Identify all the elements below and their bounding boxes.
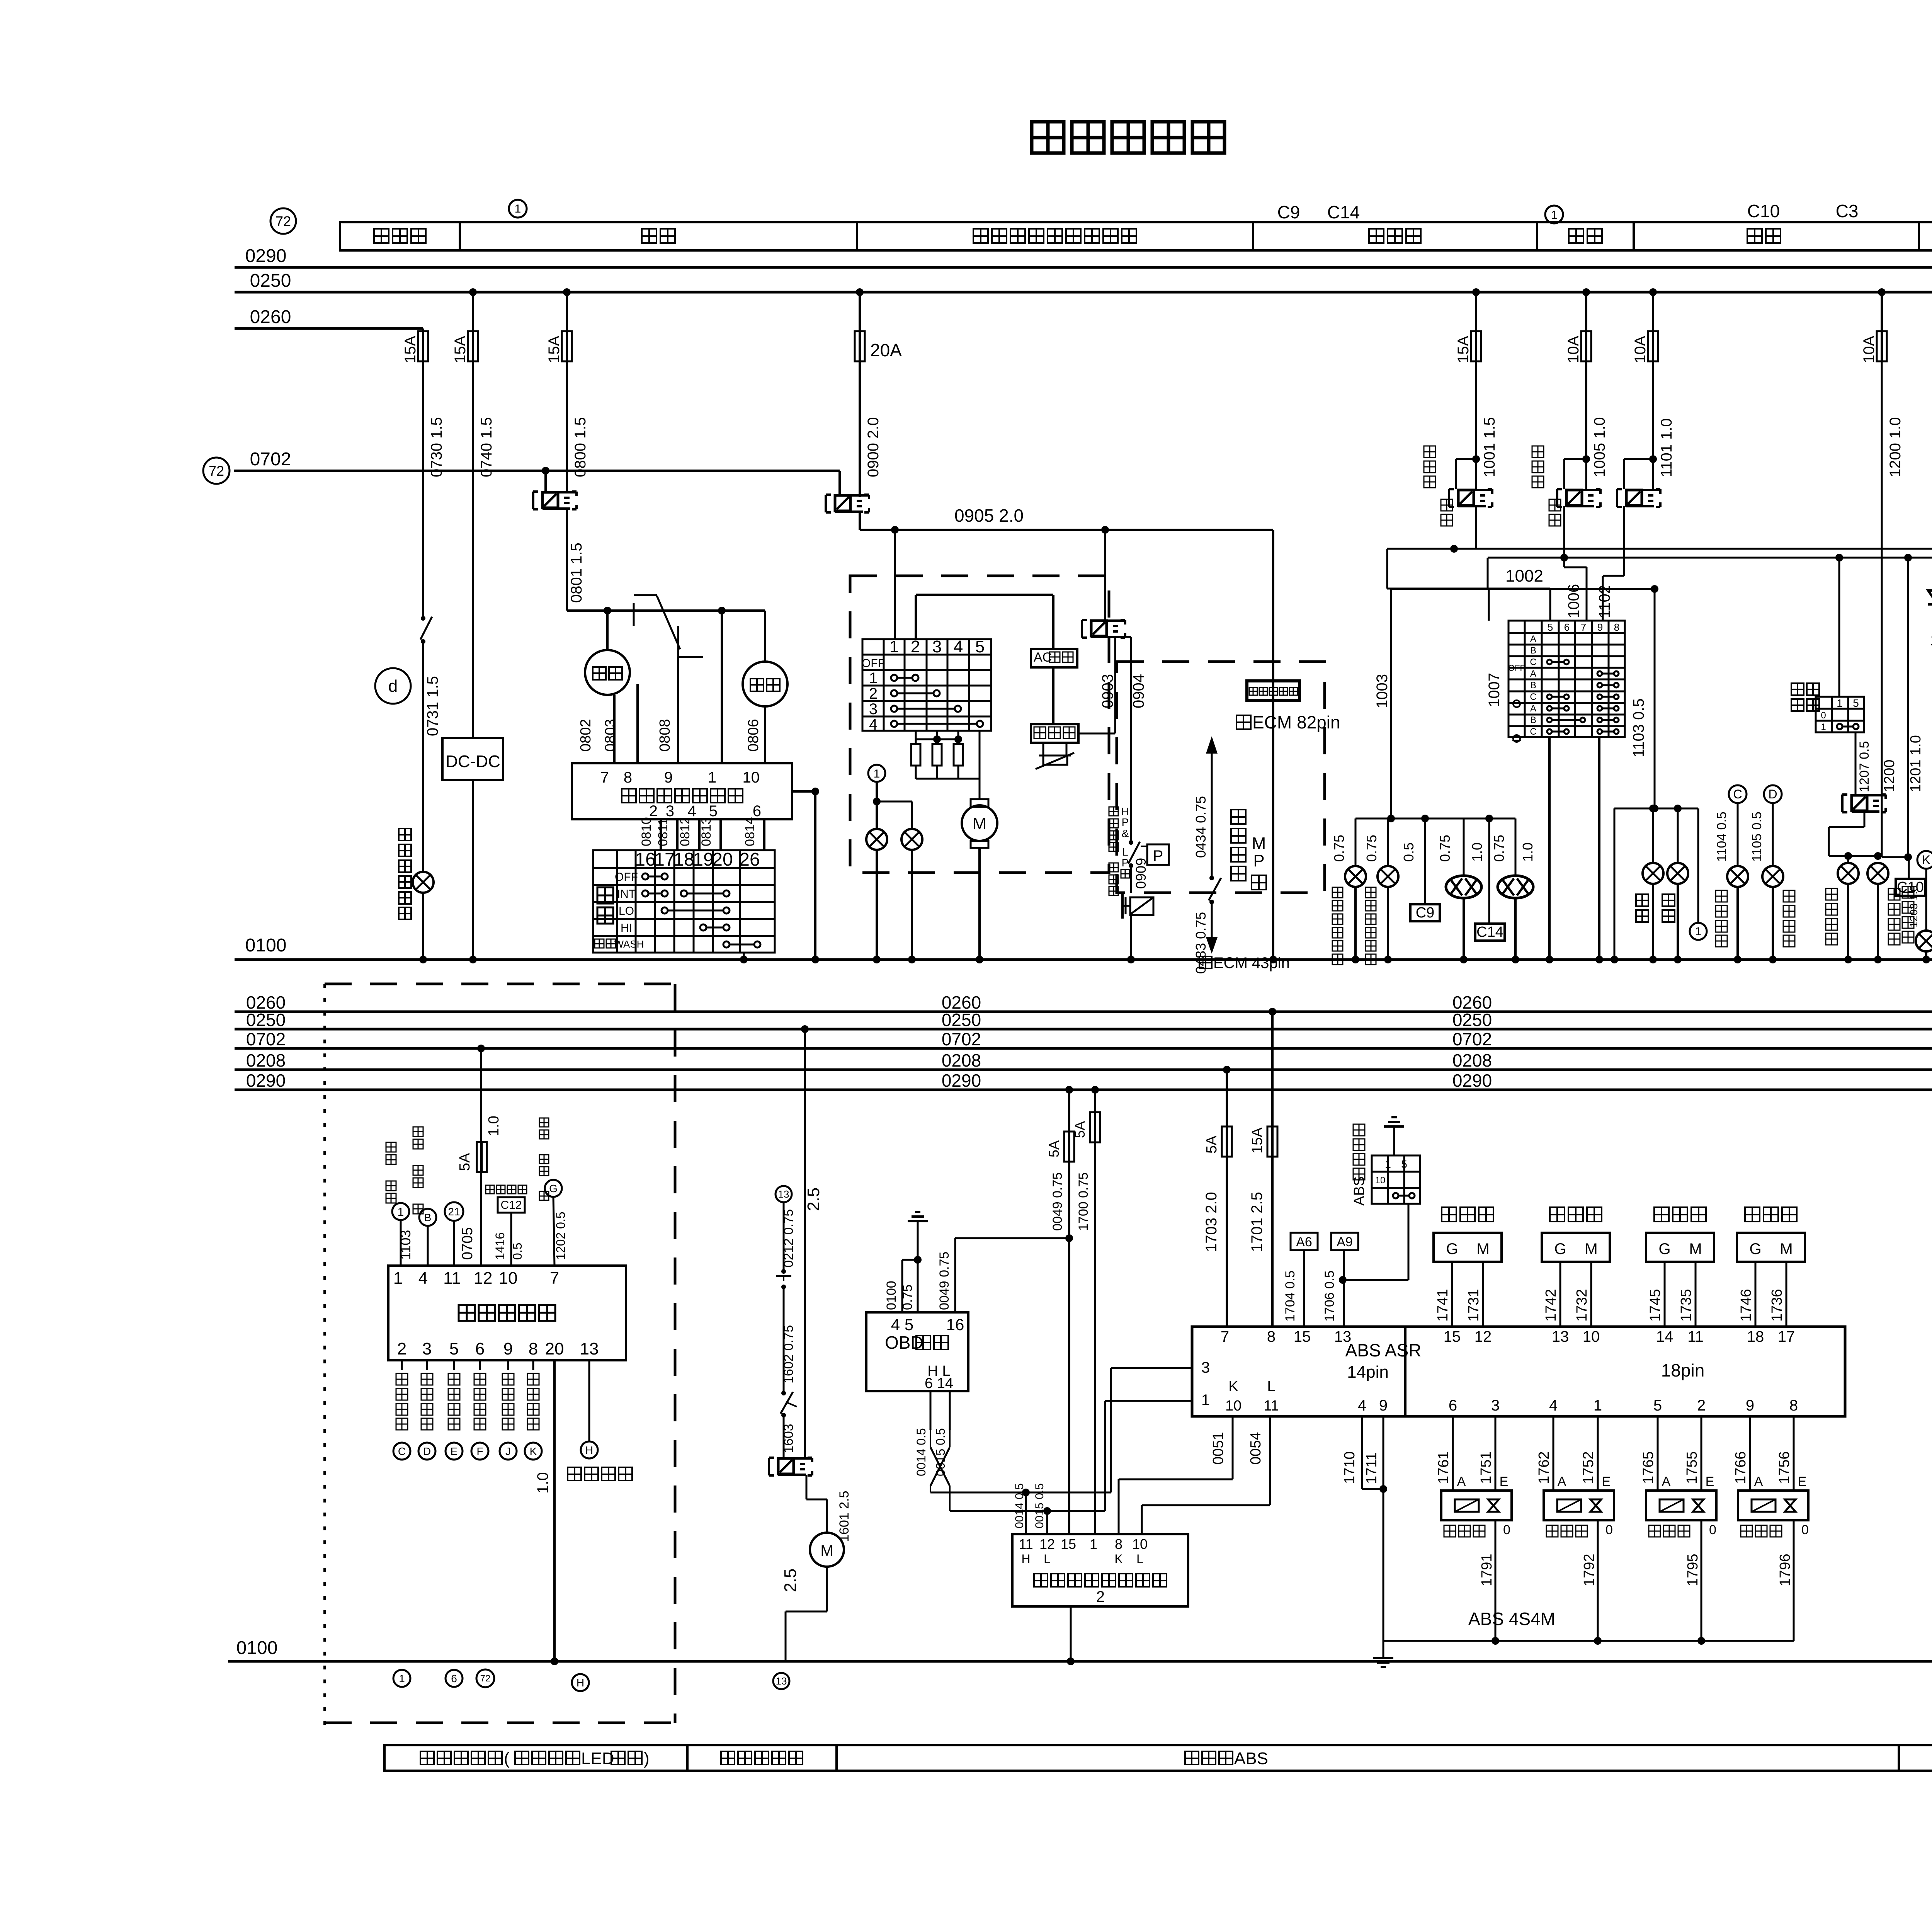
relay <box>768 1458 770 1475</box>
svg-text:1: 1 <box>869 670 878 687</box>
svg-text:1103 0.5: 1103 0.5 <box>1630 698 1647 757</box>
svg-text:A9: A9 <box>1337 1235 1353 1249</box>
wire 1703 <box>1223 1066 1231 1074</box>
svg-text:0705: 0705 <box>459 1227 476 1260</box>
svg-text:H: H <box>585 1444 593 1456</box>
svg-text:LED: LED <box>581 1749 614 1768</box>
svg-text:1731: 1731 <box>1466 1289 1482 1322</box>
svg-text:0290: 0290 <box>1452 1070 1492 1091</box>
svg-text:10: 10 <box>1132 1536 1148 1552</box>
svg-text:7: 7 <box>550 1269 559 1288</box>
ABS诊断开关 <box>1351 1124 1367 1206</box>
svg-text:2: 2 <box>1697 1397 1706 1414</box>
电控系统诊断接口 box <box>1012 1534 1188 1606</box>
svg-text:6: 6 <box>451 1673 457 1685</box>
svg-text:13: 13 <box>1334 1328 1352 1345</box>
svg-text:C: C <box>1733 787 1742 801</box>
svg-text:ECM 43pin: ECM 43pin <box>1213 955 1290 972</box>
svg-text:L: L <box>1044 1552 1051 1566</box>
svg-text:0049 0.75: 0049 0.75 <box>1050 1172 1065 1231</box>
svg-text:0811: 0811 <box>656 818 670 846</box>
svg-text:1742: 1742 <box>1543 1289 1559 1322</box>
svg-text:&: & <box>1122 827 1129 839</box>
switch 刮水位置开关 <box>633 603 635 626</box>
svg-text:5: 5 <box>975 637 985 656</box>
svg-text:0806: 0806 <box>745 719 762 752</box>
svg-text:0: 0 <box>1503 1523 1510 1537</box>
svg-text:5: 5 <box>1548 621 1553 633</box>
svg-text:0903: 0903 <box>1099 674 1116 708</box>
svg-text:M: M <box>1252 834 1266 853</box>
fuse <box>468 331 478 361</box>
wire 1102 <box>1623 506 1625 576</box>
output 左后雾灯 <box>532 1360 534 1370</box>
svg-text:1796: 1796 <box>1777 1554 1793 1586</box>
svg-text:8: 8 <box>1789 1397 1798 1414</box>
svg-text:1: 1 <box>1551 209 1558 221</box>
svg-text:WASH: WASH <box>614 938 644 950</box>
ground <box>1384 1125 1404 1128</box>
svg-text:0290: 0290 <box>246 1070 286 1091</box>
wire 0900 feeder <box>856 288 864 296</box>
温控器 box <box>1031 724 1078 743</box>
wires 0810-0814 <box>660 819 662 850</box>
svg-text:7: 7 <box>1221 1328 1229 1345</box>
svg-text:14pin: 14pin <box>1347 1363 1389 1382</box>
svg-text:1.0: 1.0 <box>486 1116 502 1136</box>
svg-text:E: E <box>1798 1474 1807 1489</box>
svg-text:0260: 0260 <box>250 307 291 327</box>
svg-text:4 5: 4 5 <box>891 1315 913 1334</box>
svg-text:0812: 0812 <box>678 817 692 846</box>
svg-text:11: 11 <box>1019 1536 1033 1552</box>
svg-text:15: 15 <box>1061 1536 1076 1552</box>
svg-text:1207 0.5: 1207 0.5 <box>1857 741 1872 792</box>
wires 1710 1711 <box>1361 1416 1363 1489</box>
svg-text:1: 1 <box>1201 1392 1210 1409</box>
svg-text:P: P <box>1253 851 1264 870</box>
fuse <box>477 1142 487 1172</box>
ground <box>1373 1657 1393 1659</box>
svg-text:0.75: 0.75 <box>900 1285 915 1310</box>
wire 0049 from pin16 <box>954 1238 956 1312</box>
svg-text:1735: 1735 <box>1678 1289 1694 1322</box>
lamp <box>1667 863 1688 884</box>
output 左制动灯 <box>453 1360 455 1370</box>
bottom band <box>384 1745 1932 1771</box>
svg-text:P: P <box>1153 847 1163 864</box>
node K <box>1917 851 1932 869</box>
valve 左后阀 <box>1657 1416 1659 1491</box>
svg-text:0904: 0904 <box>1130 674 1147 708</box>
switch 雾灯开关 grid <box>1791 683 1804 695</box>
svg-text:C: C <box>1530 692 1536 702</box>
svg-text:0049 0.75: 0049 0.75 <box>937 1252 952 1310</box>
svg-text:E: E <box>451 1445 458 1457</box>
svg-text:6: 6 <box>1449 1397 1457 1414</box>
wire 0801 <box>566 509 568 611</box>
svg-text:16: 16 <box>946 1315 964 1334</box>
twisted pair <box>930 1430 931 1447</box>
relay <box>1448 489 1450 507</box>
svg-text:K: K <box>1922 853 1930 867</box>
svg-text:2.5: 2.5 <box>781 1569 800 1592</box>
wire 1101 feeder <box>1649 288 1657 296</box>
svg-text:9: 9 <box>1746 1397 1754 1414</box>
wire 1006 <box>1563 506 1565 567</box>
svg-text:0212 0.75: 0212 0.75 <box>781 1209 796 1268</box>
relay <box>1556 489 1558 507</box>
svg-text:15A: 15A <box>1455 336 1472 363</box>
svg-text:0802: 0802 <box>578 719 594 752</box>
svg-text:1766: 1766 <box>1733 1451 1749 1484</box>
svg-text:0250: 0250 <box>1452 1010 1492 1030</box>
node G 后雾灯开关 <box>539 1118 549 1127</box>
node 1 小灯开关 <box>386 1142 396 1152</box>
svg-text:10: 10 <box>1583 1328 1600 1345</box>
svg-text:M: M <box>1585 1240 1597 1257</box>
contacts <box>642 873 648 880</box>
svg-text:1791: 1791 <box>1479 1554 1495 1586</box>
svg-text:G: G <box>549 1183 558 1195</box>
svg-text:5: 5 <box>1401 1158 1407 1170</box>
relay 近光继电器 <box>1532 446 1544 458</box>
headlamp left outer <box>1463 818 1465 876</box>
combo contacts <box>1547 660 1552 664</box>
node B 制动灯开关 <box>413 1127 423 1137</box>
lamp <box>1916 931 1932 951</box>
svg-text:P: P <box>1122 857 1129 869</box>
svg-text:D: D <box>423 1445 431 1457</box>
svg-text:0014 0.5: 0014 0.5 <box>914 1428 928 1476</box>
svg-text:0100: 0100 <box>245 935 287 956</box>
svg-text:0740 1.5: 0740 1.5 <box>478 417 495 477</box>
svg-text:1752: 1752 <box>1580 1451 1597 1484</box>
svg-text:4: 4 <box>1549 1397 1558 1414</box>
svg-text:H: H <box>1121 805 1129 817</box>
switch grid <box>862 639 991 731</box>
switch tilt2 <box>781 1391 786 1395</box>
relay <box>1616 489 1618 507</box>
wire 0705 fuse <box>477 1045 485 1052</box>
switch tilt1 <box>781 1269 786 1274</box>
svg-text:1: 1 <box>399 1673 405 1685</box>
svg-text:6 14: 6 14 <box>925 1375 953 1392</box>
svg-text:14: 14 <box>1656 1328 1673 1345</box>
svg-text:1: 1 <box>708 769 716 786</box>
svg-text:G: G <box>1658 1240 1670 1257</box>
svg-text:0.75: 0.75 <box>1437 835 1453 862</box>
svg-text:0100: 0100 <box>236 1638 278 1658</box>
pin13 wire 车门开关 <box>588 1360 590 1441</box>
label 刮水 <box>597 887 613 924</box>
svg-text:1703 2.0: 1703 2.0 <box>1203 1192 1220 1252</box>
svg-text:ABS ASR: ABS ASR <box>1345 1340 1422 1360</box>
svg-text:1: 1 <box>1594 1397 1602 1414</box>
svg-text:C3: C3 <box>1836 201 1859 221</box>
svg-text:1102: 1102 <box>1596 585 1613 618</box>
svg-text:0250: 0250 <box>246 1010 286 1030</box>
label 牵引车工作灯 <box>399 829 411 841</box>
node 1 (above 小灯) <box>1545 206 1563 223</box>
C12 灯丝检测 <box>486 1185 494 1194</box>
svg-text:ECM 82pin: ECM 82pin <box>1252 712 1340 732</box>
svg-text:1005 1.0: 1005 1.0 <box>1591 417 1608 477</box>
svg-text:G: G <box>1446 1240 1458 1257</box>
svg-text:2: 2 <box>911 637 920 656</box>
wire 1201 <box>1907 558 1909 857</box>
svg-text:E: E <box>1706 1474 1714 1489</box>
svg-text:C10: C10 <box>1747 201 1780 221</box>
connector A6 <box>1291 1233 1318 1250</box>
svg-text:1: 1 <box>1821 722 1826 732</box>
svg-text:A: A <box>1530 669 1536 679</box>
wire 0801 branch <box>567 609 765 612</box>
node 13 <box>776 1186 792 1202</box>
node 72 top <box>270 208 296 234</box>
fuse <box>1648 331 1658 361</box>
header box 手动空调及暖风系统 <box>857 222 1253 250</box>
svg-text:K: K <box>530 1445 537 1457</box>
svg-text:C: C <box>1530 657 1536 667</box>
wire 1004/line to switch <box>1475 506 1477 549</box>
svg-text:ABS 4S4M: ABS 4S4M <box>1468 1609 1555 1629</box>
title 电气原理图 <box>1032 122 1064 153</box>
svg-text:d: d <box>388 677 398 696</box>
svg-text:1: 1 <box>874 767 880 780</box>
lamp 小灯2 <box>1677 808 1679 863</box>
sensor 左前传 <box>1442 1207 1456 1222</box>
svg-text:0208: 0208 <box>1452 1050 1492 1070</box>
relay 远光继电器 <box>1424 446 1435 458</box>
svg-text:0: 0 <box>1605 1523 1613 1537</box>
wire 0806 <box>764 706 766 763</box>
svg-text:72: 72 <box>480 1673 491 1684</box>
svg-text:1603: 1603 <box>781 1424 796 1453</box>
svg-text:DC-DC: DC-DC <box>446 752 500 771</box>
svg-text:A: A <box>1457 1474 1466 1489</box>
svg-text:7: 7 <box>1581 621 1586 633</box>
svg-text:E: E <box>1602 1474 1611 1489</box>
fuse <box>1581 331 1591 361</box>
headlamp right outer <box>1515 818 1517 876</box>
svg-text:18pin: 18pin <box>1661 1360 1705 1380</box>
svg-text:8: 8 <box>529 1339 538 1358</box>
svg-text:26: 26 <box>739 849 760 870</box>
svg-text:0800 1.5: 0800 1.5 <box>572 417 589 477</box>
wire 1207 <box>1855 732 1857 795</box>
blower contacts <box>891 675 897 681</box>
svg-text:0813: 0813 <box>699 817 714 846</box>
wire 1005 feeder <box>1582 288 1590 296</box>
fuse <box>1222 1126 1232 1157</box>
relay output right <box>792 790 815 793</box>
switch grid <box>593 850 775 953</box>
svg-text:(: ( <box>504 1749 510 1768</box>
svg-text:13: 13 <box>778 1188 789 1200</box>
svg-text:0808: 0808 <box>657 719 673 752</box>
svg-text:72: 72 <box>276 213 291 229</box>
svg-text:0.75: 0.75 <box>1491 835 1507 862</box>
svg-text:L: L <box>1267 1378 1275 1395</box>
lamp <box>1345 866 1366 887</box>
svg-text:0: 0 <box>1821 710 1826 721</box>
connector A9 <box>1331 1233 1358 1250</box>
bus 0702 <box>203 458 230 484</box>
svg-text:0290: 0290 <box>245 246 287 266</box>
svg-text:2: 2 <box>869 685 878 702</box>
lamp <box>1867 863 1888 884</box>
svg-text:A: A <box>1662 1474 1671 1489</box>
svg-text:OFF: OFF <box>862 657 885 670</box>
node d <box>375 668 411 704</box>
svg-text:1002: 1002 <box>1505 567 1543 585</box>
svg-text:1: 1 <box>393 1269 403 1288</box>
line to 1103/1003 <box>1487 558 1489 589</box>
svg-text:3: 3 <box>666 803 674 820</box>
svg-text:A: A <box>1530 703 1536 714</box>
wire 0730 feeder <box>422 328 424 361</box>
twisted outputs <box>930 1486 931 1492</box>
svg-text:5A: 5A <box>1046 1140 1062 1157</box>
svg-text:1.0: 1.0 <box>1469 842 1485 862</box>
connector C9 <box>1424 818 1426 904</box>
svg-text:1762: 1762 <box>1536 1451 1552 1484</box>
lamp <box>1643 863 1663 884</box>
svg-text:L: L <box>1136 1552 1143 1566</box>
svg-text:13: 13 <box>776 1675 787 1687</box>
relay <box>825 495 827 512</box>
svg-text:1009 0.5: 1009 0.5 <box>1930 632 1932 649</box>
svg-text:13: 13 <box>580 1339 599 1358</box>
wire 0800 <box>566 361 568 492</box>
wire 1007 <box>1488 589 1490 621</box>
connector C14 <box>1488 818 1490 924</box>
svg-text:20A: 20A <box>870 340 902 360</box>
svg-text:A: A <box>1530 634 1536 644</box>
svg-text:16: 16 <box>635 849 655 870</box>
svg-text:1.0: 1.0 <box>534 1472 551 1494</box>
svg-text:0801 1.5: 0801 1.5 <box>568 543 585 603</box>
svg-text:1001 1.5: 1001 1.5 <box>1481 417 1498 477</box>
svg-text:0: 0 <box>1709 1523 1716 1537</box>
line 1443 <box>1488 557 1932 559</box>
svg-text:B: B <box>424 1212 432 1223</box>
sensor 右前传 <box>1550 1207 1565 1222</box>
label 接ECM 43pin <box>1199 956 1212 968</box>
wire 0800 feeder <box>563 288 571 296</box>
relay <box>1081 620 1083 638</box>
ECM arrow line <box>1211 754 1213 876</box>
svg-text:1745: 1745 <box>1647 1289 1663 1322</box>
svg-text:4: 4 <box>1358 1397 1366 1414</box>
svg-text:17: 17 <box>1778 1328 1795 1345</box>
小灯 feeder <box>1614 808 1698 810</box>
svg-text:K: K <box>1228 1378 1238 1395</box>
svg-text:D: D <box>1768 787 1777 801</box>
svg-text:1201 1.0: 1201 1.0 <box>1908 735 1924 792</box>
wire 0905 <box>859 512 861 530</box>
fuse <box>1877 331 1887 361</box>
svg-text:17: 17 <box>654 849 675 870</box>
svg-text:C9: C9 <box>1277 202 1300 222</box>
wire 0900 to relay <box>859 361 861 497</box>
diode D1 <box>1928 590 1932 604</box>
svg-text:K: K <box>1114 1552 1122 1566</box>
svg-text:H: H <box>577 1677 584 1689</box>
headlamp feeder <box>1355 818 1515 820</box>
header box 牵引灯 <box>340 222 460 250</box>
svg-text:1: 1 <box>889 637 899 656</box>
svg-text:5: 5 <box>1853 697 1859 709</box>
svg-text:6: 6 <box>1564 621 1570 633</box>
svg-text:15A: 15A <box>546 336 563 363</box>
svg-text:0803: 0803 <box>602 719 619 752</box>
svg-text:8: 8 <box>624 769 632 786</box>
bus 0260 (lower) <box>235 1011 1932 1013</box>
svg-text:M: M <box>1689 1240 1702 1257</box>
svg-text:1701 2.5: 1701 2.5 <box>1248 1192 1265 1252</box>
AC开关 box <box>1031 649 1077 667</box>
bus 0290 (lower) <box>235 1089 1932 1091</box>
connector C10 <box>1908 857 1910 879</box>
svg-text:8: 8 <box>1115 1536 1122 1552</box>
wire 0808 <box>677 657 679 763</box>
svg-text:1103: 1103 <box>398 1230 413 1260</box>
svg-text:0290: 0290 <box>942 1070 981 1091</box>
blower resistors <box>915 731 917 744</box>
svg-text:10A: 10A <box>1565 336 1582 363</box>
nodes below 0100 <box>393 1670 410 1687</box>
svg-text:10A: 10A <box>1632 336 1649 363</box>
wire 0802 <box>613 695 616 763</box>
fuse <box>1267 1126 1277 1157</box>
lamp <box>1378 866 1398 887</box>
switch pressure <box>1129 840 1133 845</box>
svg-text:0014 0.5: 0014 0.5 <box>1013 1483 1026 1528</box>
svg-text:72: 72 <box>209 463 224 479</box>
svg-text:1: 1 <box>1385 1158 1391 1170</box>
OBD接口 box <box>866 1312 968 1391</box>
svg-text:2: 2 <box>1096 1588 1105 1605</box>
svg-text:A: A <box>1754 1474 1763 1489</box>
svg-text:0051: 0051 <box>1210 1432 1226 1465</box>
svg-text:12: 12 <box>1475 1328 1492 1345</box>
lamp <box>413 872 434 893</box>
sensor 左后传 <box>1654 1207 1669 1222</box>
svg-text:0702: 0702 <box>246 1029 286 1049</box>
blower feed <box>894 530 896 639</box>
svg-text:E: E <box>1500 1474 1509 1489</box>
svg-text:1105 0.5: 1105 0.5 <box>1750 812 1764 862</box>
svg-text:8: 8 <box>1267 1328 1276 1345</box>
svg-text:ABS: ABS <box>1351 1176 1367 1206</box>
svg-text:19: 19 <box>693 849 713 870</box>
lamp 右内侧前照灯 <box>1387 818 1389 866</box>
wire pin1 <box>721 611 723 763</box>
svg-text:C: C <box>1530 727 1536 737</box>
svg-text:M: M <box>1476 1240 1489 1257</box>
wire AC->温控器 <box>1052 667 1054 724</box>
headlamp <box>1446 876 1481 898</box>
svg-text:1: 1 <box>1695 925 1702 938</box>
svg-text:0.5: 0.5 <box>1401 842 1417 862</box>
svg-text:3: 3 <box>1201 1359 1210 1376</box>
bus 0250 (lower) <box>235 1028 1932 1031</box>
svg-text:P: P <box>1122 816 1129 828</box>
node 1 circle <box>868 765 885 782</box>
switch grid <box>1372 1155 1420 1204</box>
